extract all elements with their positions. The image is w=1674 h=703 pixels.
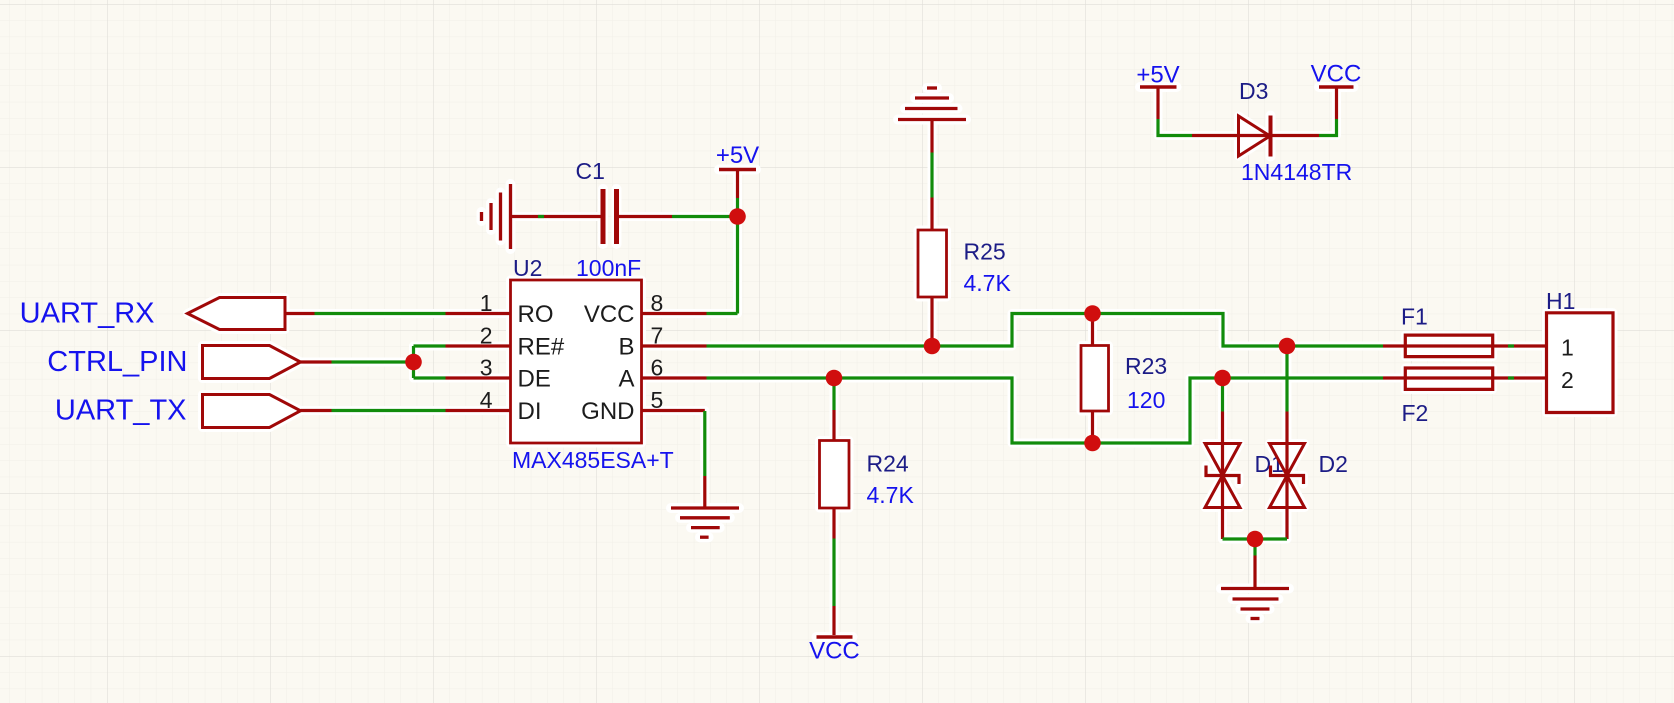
- pin ground to R25: [930, 120, 933, 153]
- svg-text:2: 2: [1561, 367, 1574, 393]
- wire D1 top: [1221, 378, 1224, 412]
- svg-text:RE#: RE#: [518, 334, 565, 361]
- net port CTRL_PIN: [203, 346, 301, 379]
- svg-text:120: 120: [1127, 387, 1165, 413]
- lead D1 vertical: [1221, 412, 1224, 540]
- svg-text:U2: U2: [513, 255, 542, 281]
- svg-text:RO: RO: [518, 301, 554, 328]
- svg-text:4: 4: [480, 387, 493, 413]
- wire ground to C1 left plate: [511, 215, 602, 218]
- svg-text:VCC: VCC: [1311, 61, 1362, 88]
- wire +5V node vertical to U2 pin8: [736, 198, 739, 314]
- pin 4 U2: [446, 409, 511, 412]
- diode D2 bottom triangle: [1270, 476, 1305, 508]
- svg-text:7: 7: [651, 323, 664, 349]
- svg-text:VCC: VCC: [809, 638, 860, 665]
- wire C1-right to +5V node: [672, 215, 730, 218]
- wire GND to R25 top: [930, 153, 933, 198]
- pin 6 U2: [642, 376, 707, 379]
- pin R23 bottom: [1091, 411, 1094, 443]
- wire C1 right plate lead: [619, 215, 672, 218]
- wire UART_RX to U2 pin1: [315, 312, 446, 315]
- junction node B/D2: [1279, 338, 1296, 355]
- svg-text:1: 1: [1561, 335, 1574, 361]
- junction node D1-D2 ground: [1247, 531, 1264, 548]
- svg-text:UART_TX: UART_TX: [55, 395, 187, 427]
- junction node A/R23 bottom: [1084, 435, 1101, 452]
- VCC flag bar under R24: [817, 635, 853, 639]
- svg-text:D3: D3: [1239, 78, 1268, 104]
- wire CTRL_PIN horizontal: [332, 360, 414, 363]
- lead D2 vertical: [1285, 412, 1288, 540]
- svg-text:H1: H1: [1546, 288, 1575, 314]
- svg-text:F2: F2: [1402, 400, 1429, 426]
- svg-text:4.7K: 4.7K: [964, 270, 1012, 296]
- capacitor C1 plates: [601, 189, 606, 244]
- junction node B/R25: [924, 338, 941, 355]
- svg-text:1N4148TR: 1N4148TR: [1241, 159, 1352, 185]
- wire R24 bottom to VCC: [832, 539, 835, 607]
- diode D1 zener bar: [1206, 466, 1239, 485]
- lead +5V to D3: [1192, 134, 1270, 137]
- resistor R25 body: [918, 230, 947, 297]
- svg-text:8: 8: [651, 290, 664, 316]
- junction node A/R24: [826, 370, 843, 387]
- svg-text:5: 5: [651, 387, 664, 413]
- svg-text:+5V: +5V: [1136, 62, 1179, 89]
- svg-text:3: 3: [480, 355, 493, 381]
- pin +5V flag near C1: [736, 171, 739, 198]
- wire C1-left tiny segment: [538, 215, 544, 218]
- ground U2 pin5: [671, 506, 739, 509]
- ground D1/D2: [1221, 587, 1289, 590]
- junction node CTRL_PIN tie: [405, 354, 422, 371]
- svg-text:+5V: +5V: [716, 142, 759, 169]
- wire U2 pin8 horizontal: [707, 312, 738, 315]
- junction node +5V/C1: [729, 208, 746, 225]
- svg-text:2: 2: [480, 323, 493, 349]
- pin +5V flag D3: [1156, 89, 1159, 120]
- wire D1-D2 bottom bus: [1223, 537, 1288, 540]
- wire UART_TX to U2 pin4: [332, 409, 446, 412]
- svg-text:VCC: VCC: [584, 301, 635, 328]
- svg-text:C1: C1: [576, 158, 605, 184]
- wire bottom bus to GND: [1253, 539, 1256, 556]
- +5V flag bar D3: [1140, 85, 1177, 89]
- resistor R23 body: [1081, 346, 1109, 412]
- pin R24 top: [832, 410, 835, 441]
- wire U2 pin5 to GND: [703, 411, 706, 476]
- pin R24 to VCC flag: [832, 606, 835, 635]
- lead UART_TX flag: [301, 409, 332, 412]
- wire stub F2-H1: [1508, 376, 1514, 379]
- ground above R25: [898, 118, 966, 121]
- pin 8 U2: [642, 312, 707, 315]
- svg-text:DI: DI: [518, 398, 542, 425]
- lead bottom bus to ground: [1253, 556, 1256, 589]
- pin 1 U2: [446, 312, 511, 315]
- lead CTRL_PIN flag: [301, 360, 332, 363]
- svg-text:6: 6: [651, 355, 664, 381]
- white casing under all strokes: [188, 87, 1614, 637]
- wire net A: U2 pin6 to F2: [707, 378, 1384, 443]
- svg-text:A: A: [618, 366, 634, 393]
- header H1 body: [1547, 313, 1614, 413]
- wire D2 top: [1285, 346, 1288, 412]
- pin 3 U2: [446, 376, 511, 379]
- lead F2 through-line: [1383, 376, 1547, 379]
- svg-text:CTRL_PIN: CTRL_PIN: [47, 346, 187, 378]
- junction node B/R23 top: [1084, 305, 1101, 322]
- IC U2 body MAX485ESA+T: [511, 280, 642, 443]
- svg-text:R24: R24: [867, 451, 909, 477]
- pin U2 pin5 ground stub: [703, 476, 706, 508]
- lead UART_RX flag: [285, 312, 315, 315]
- pin R25 top: [930, 198, 933, 231]
- svg-text:R23: R23: [1125, 353, 1167, 379]
- wire +5V to D3 anode: [1158, 119, 1192, 136]
- pin R25 bottom: [930, 297, 933, 346]
- wire stub F1-H1: [1508, 344, 1514, 347]
- net port UART_RX: [188, 298, 286, 330]
- svg-text:UART_RX: UART_RX: [20, 298, 155, 330]
- diode D1 top triangle: [1205, 444, 1240, 476]
- svg-text:GND: GND: [581, 398, 634, 425]
- pin 5 U2: [642, 409, 705, 412]
- wire net B: U2 pin7 to F1: [707, 314, 1384, 347]
- fuse F2 body: [1405, 368, 1492, 389]
- svg-text:R25: R25: [964, 239, 1006, 265]
- wire CTRL_PIN vertical tie: [412, 346, 415, 378]
- svg-text:1: 1: [480, 290, 493, 316]
- net port UART_TX: [203, 395, 301, 428]
- lead F1 through-line: [1383, 344, 1547, 347]
- svg-text:F1: F1: [1401, 304, 1428, 330]
- fuse F1 body: [1405, 335, 1492, 357]
- pin 2 U2: [446, 344, 511, 347]
- svg-text:MAX485ESA+T: MAX485ESA+T: [512, 447, 674, 473]
- junction node A/D1: [1214, 370, 1231, 387]
- diode D2 top triangle: [1270, 444, 1305, 476]
- VCC flag bar D3: [1319, 85, 1354, 89]
- pin R24 bottom: [832, 508, 835, 539]
- wire D3 cathode to VCC: [1319, 119, 1337, 136]
- diode D3 cathode bar: [1269, 116, 1273, 157]
- svg-text:100nF: 100nF: [576, 255, 641, 281]
- ground C1 (left-pointing): [509, 184, 512, 249]
- wire tie to U2 pin2: [414, 344, 446, 347]
- pin R23 top: [1091, 314, 1094, 346]
- diode D3 triangle: [1239, 116, 1271, 156]
- lead D3 to VCC: [1271, 134, 1320, 137]
- wire R24 top to net A: [832, 378, 835, 410]
- +5V flag bar near C1: [719, 168, 756, 172]
- wire tie to U2 pin3: [414, 376, 446, 379]
- svg-text:D2: D2: [1319, 451, 1348, 477]
- resistor R24 body: [820, 441, 850, 509]
- svg-text:4.7K: 4.7K: [867, 482, 915, 508]
- diode D1 bottom triangle: [1205, 476, 1240, 508]
- svg-text:DE: DE: [518, 366, 551, 393]
- svg-text:B: B: [618, 334, 634, 361]
- diode D2 zener bar: [1271, 466, 1304, 485]
- pin VCC flag D3: [1335, 89, 1338, 120]
- pin 7 U2: [642, 344, 707, 347]
